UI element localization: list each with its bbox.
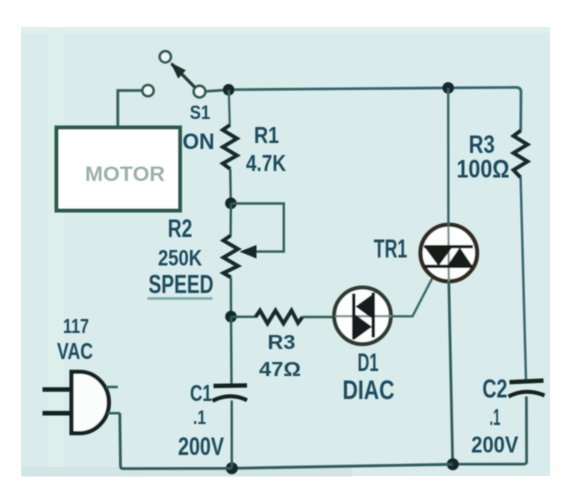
svg-text:100Ω: 100Ω <box>457 157 510 184</box>
wire: plug top stub to motor branch <box>106 386 118 389</box>
svg-text:.1: .1 <box>490 404 501 430</box>
svg-text:R3: R3 <box>469 132 495 159</box>
capacitor C1 top plate <box>214 383 248 388</box>
svg-text:200V: 200V <box>471 431 518 457</box>
svg-text:47Ω: 47Ω <box>259 358 301 381</box>
triac bottom bar <box>425 265 472 268</box>
triac right triangle (points up) <box>447 247 473 266</box>
wire: bottom rail right-to-mid <box>232 464 453 468</box>
svg-text:SPEED: SPEED <box>149 269 214 299</box>
svg-text:VAC: VAC <box>57 338 93 364</box>
node C junction dot <box>225 311 237 323</box>
wire: R3 down to C2 <box>521 178 526 381</box>
svg-text:D1: D1 <box>358 349 379 377</box>
svg-text:R3: R3 <box>268 331 296 354</box>
wire: node B to R2 <box>229 204 232 237</box>
AC plug body <box>72 372 109 433</box>
wire through triac <box>447 226 450 281</box>
capacitor C1 curved plate <box>213 396 248 401</box>
wire: wiper loop from node B <box>231 204 284 252</box>
svg-text:DIAC: DIAC <box>343 375 395 405</box>
svg-text:200V: 200V <box>178 434 224 461</box>
wire: R1 bottom to node B <box>229 169 232 203</box>
diac right bar <box>372 293 375 338</box>
wire: C1 node C to top plate <box>230 317 233 384</box>
AC plug top prong <box>43 387 71 392</box>
wire through diac <box>335 315 391 317</box>
diac D1 circle <box>334 288 391 345</box>
triac left triangle (points down) <box>425 247 453 266</box>
diac upper triangle (points left) <box>356 294 373 319</box>
svg-text:R2: R2 <box>168 216 193 243</box>
wire: switch right terminal to node A <box>206 90 223 91</box>
svg-text:C2: C2 <box>482 376 507 404</box>
potentiometer R2 wiper arrowhead <box>240 245 257 259</box>
svg-text:.1: .1 <box>193 408 206 429</box>
switch S1 top throw terminal <box>160 51 171 62</box>
resistor R3 47 ohm zigzag <box>256 311 303 324</box>
triac TR1 circle <box>421 225 478 282</box>
switch S1 left terminal <box>142 85 153 96</box>
resistor R3 100 ohm zigzag <box>514 131 528 178</box>
wire: C1 down to bottom node F <box>230 401 233 469</box>
wire: triac down to bottom rail <box>449 281 453 464</box>
switch S1 lever <box>172 64 195 87</box>
node B junction dot <box>225 198 237 210</box>
wire: node D down to triac <box>447 88 450 225</box>
SPEED underline <box>147 297 212 300</box>
node E junction dot (bottom, triac leg) <box>447 458 459 470</box>
svg-text:ON: ON <box>183 129 215 154</box>
svg-text:250K: 250K <box>158 246 202 271</box>
AC plug bottom prong <box>43 411 71 416</box>
capacitor C2 curved plate <box>509 392 545 397</box>
wire: motor top to switch <box>118 91 142 211</box>
svg-text:R1: R1 <box>254 122 279 148</box>
motor box <box>57 128 181 211</box>
resistor R1 zigzag <box>223 125 237 169</box>
node F junction dot (bottom, C1 leg) <box>226 462 238 474</box>
triac top bar <box>424 245 473 248</box>
potentiometer R2 zigzag <box>223 236 238 278</box>
svg-text:TR1: TR1 <box>374 235 408 263</box>
wire: diac to gate bend <box>391 271 436 316</box>
diac left bar <box>352 294 355 340</box>
switch S1 lever arrowhead <box>171 63 186 79</box>
wire: bottom rail mid-to-left and up to plug <box>120 413 232 468</box>
svg-text:117: 117 <box>63 315 89 338</box>
switch S1 pole terminal <box>194 86 206 98</box>
wire: top rail node A to right corner <box>229 87 521 131</box>
wire: node A down to R1 <box>229 90 230 126</box>
node A junction dot <box>223 84 235 96</box>
svg-text:S1: S1 <box>190 102 211 124</box>
wire: C2 down to bottom right corner <box>453 397 527 465</box>
svg-text:4.7K: 4.7K <box>246 150 286 176</box>
svg-text:C1: C1 <box>190 380 212 406</box>
node D junction dot (top of triac branch) <box>442 82 454 94</box>
wire: R3 to diac <box>303 316 335 318</box>
wire: node C to R3 <box>231 316 256 318</box>
wire: plug bottom stub <box>108 412 121 415</box>
svg-text:MOTOR: MOTOR <box>85 162 166 186</box>
wire: R2 bottom to node C <box>230 278 233 317</box>
diac lower triangle (points right) <box>355 314 373 340</box>
capacitor C2 top plate <box>510 381 544 383</box>
